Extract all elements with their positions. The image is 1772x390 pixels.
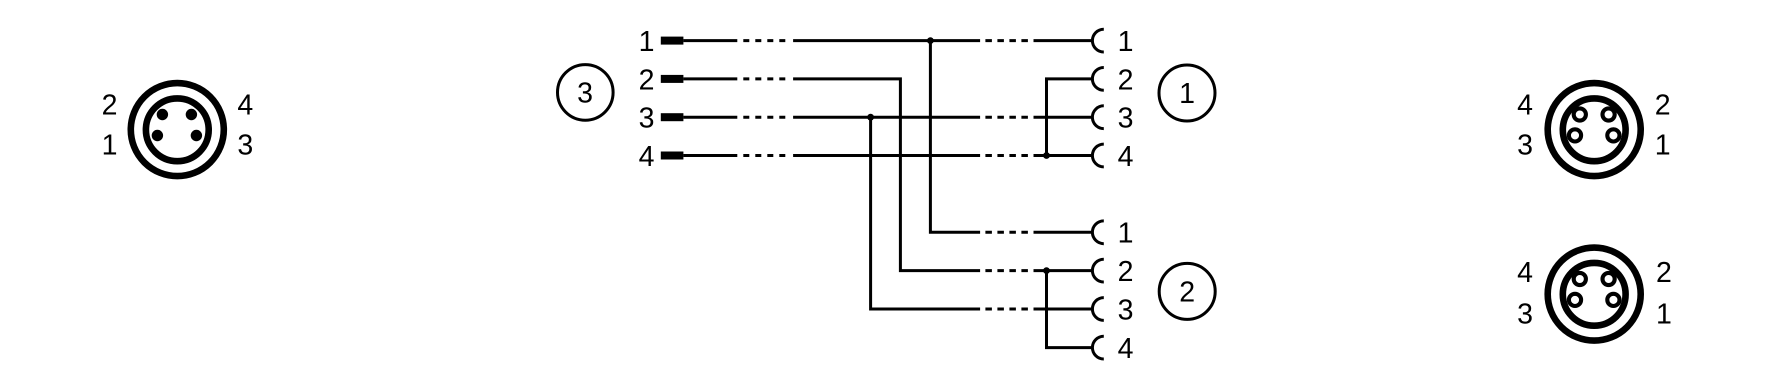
wire 2 dashed section xyxy=(743,77,785,80)
wire 1 dashed section xyxy=(743,39,785,42)
svg-text:1: 1 xyxy=(1655,130,1671,162)
svg-text:4: 4 xyxy=(1118,333,1134,365)
socket ring 1 (bottom-right) xyxy=(1607,294,1619,306)
wire 3 branch down to connector 2 pin 3 xyxy=(871,117,981,309)
pin dot 4 (top-right) xyxy=(186,109,197,120)
wire 1 branch down to connector 2 pin 1 xyxy=(930,39,980,232)
connector X2 female face (bottom right) xyxy=(1548,248,1641,341)
wire 3 branch into socket 2-3 xyxy=(1034,308,1093,311)
svg-text:2: 2 xyxy=(1118,256,1134,288)
svg-text:4: 4 xyxy=(1517,257,1533,289)
node 3 (cable end marker circle) xyxy=(558,65,614,121)
svg-text:1: 1 xyxy=(639,26,655,58)
socket ring 4 (top-left) xyxy=(1574,273,1586,285)
node 2 (connector 2 marker circle) xyxy=(1159,263,1215,319)
wire 4 dashed section xyxy=(743,154,785,157)
svg-text:3: 3 xyxy=(237,130,253,162)
svg-text:3: 3 xyxy=(1118,103,1134,135)
socket arc 2-4 xyxy=(1092,336,1103,359)
socket arc 1-2 xyxy=(1092,68,1103,91)
wire 3 into socket 1-3 xyxy=(1034,116,1093,119)
connector X1 female face (top right) xyxy=(1548,83,1641,176)
inner insert circle xyxy=(146,98,209,161)
pin dot 3 (bottom-right) xyxy=(191,130,202,141)
wire 2 into socket 2-2 xyxy=(1034,269,1093,272)
junction dot wire3/branch xyxy=(867,114,874,121)
wire 1: lug to dash xyxy=(683,39,737,42)
wire 2: lug to dash xyxy=(683,77,737,80)
inner insert circle xyxy=(1563,263,1626,326)
svg-text:2: 2 xyxy=(1655,90,1671,122)
wire 3: lug to dash xyxy=(683,116,737,119)
outer shell circle xyxy=(131,83,224,176)
svg-text:2: 2 xyxy=(102,90,118,122)
wire 4 main run to connector 1 pin 4 xyxy=(793,154,980,157)
svg-text:2: 2 xyxy=(639,64,655,96)
svg-text:4: 4 xyxy=(639,141,655,173)
socket ring 1 (bottom-right) xyxy=(1607,129,1619,141)
junction dot socket 1-4 bridge xyxy=(1043,152,1050,159)
wire 3 dashed section right xyxy=(985,116,1028,119)
svg-text:1: 1 xyxy=(1118,26,1134,58)
socket ring 3 (bottom-left) xyxy=(1569,129,1581,141)
socket arc 1-3 xyxy=(1092,106,1103,129)
junction dot wire1/branch xyxy=(927,37,934,44)
wire 1 branch into socket 2-1 xyxy=(1034,231,1093,234)
pin dot 2 (top-left) xyxy=(157,109,168,120)
wire 4: lug to dash xyxy=(683,154,737,157)
wire 3 branch dashed section xyxy=(985,308,1028,311)
junction dot socket 2-2 bridge xyxy=(1043,267,1050,274)
wire 1 branch dashed section xyxy=(985,231,1028,234)
svg-text:4: 4 xyxy=(1118,141,1134,173)
pin dot 1 (bottom-left) xyxy=(152,130,163,141)
svg-text:1: 1 xyxy=(1118,218,1134,250)
wire 2 dashed section right xyxy=(985,269,1028,272)
svg-text:1: 1 xyxy=(1656,299,1672,331)
wire 4 bridge to socket 1-2 xyxy=(1047,79,1093,156)
socket arc 1-4 xyxy=(1092,144,1103,167)
svg-text:2: 2 xyxy=(1118,64,1134,96)
svg-text:3: 3 xyxy=(1118,294,1134,326)
socket ring 3 (bottom-left) xyxy=(1569,294,1581,306)
wire 3 dashed section xyxy=(743,116,785,119)
wire 3 main run to connector 1 pin 3 xyxy=(793,116,980,119)
connector X3 male face (left) xyxy=(131,83,224,176)
svg-text:4: 4 xyxy=(237,90,253,122)
socket arc 2-3 xyxy=(1092,298,1103,321)
terminal lug pin 2 xyxy=(661,75,684,83)
wire 1 main run to connector 1 pin 1 xyxy=(793,39,980,42)
wire 1 into socket 1-1 xyxy=(1034,39,1093,42)
svg-text:4: 4 xyxy=(1517,90,1533,122)
inner insert circle xyxy=(1563,98,1626,161)
socket arc 2-1 xyxy=(1092,221,1103,244)
svg-text:3: 3 xyxy=(577,78,593,110)
svg-text:3: 3 xyxy=(639,103,655,135)
outer shell circle xyxy=(1548,248,1641,341)
svg-text:3: 3 xyxy=(1517,130,1533,162)
svg-text:2: 2 xyxy=(1179,277,1195,309)
wire 2 run and turn down to connector 2 pin 2 xyxy=(793,79,980,271)
socket ring 4 (top-left) xyxy=(1574,108,1586,120)
outer shell circle xyxy=(1548,83,1641,176)
terminal lug pin 1 xyxy=(661,37,684,45)
svg-text:1: 1 xyxy=(102,130,118,162)
wire 2 bridge to socket 2-4 xyxy=(1047,271,1093,348)
svg-text:2: 2 xyxy=(1656,257,1672,289)
wire 1 dashed section right xyxy=(985,39,1028,42)
terminal lug pin 3 xyxy=(661,113,684,121)
socket arc 2-2 xyxy=(1092,259,1103,282)
socket arc 1-1 xyxy=(1092,29,1103,52)
wire 4 dashed section right xyxy=(985,154,1028,157)
node 1 (connector 1 marker circle) xyxy=(1159,65,1215,121)
socket ring 2 (top-right) xyxy=(1603,108,1615,120)
terminal lug pin 4 xyxy=(661,152,684,160)
svg-text:3: 3 xyxy=(1517,299,1533,331)
socket ring 2 (top-right) xyxy=(1603,273,1615,285)
wire 4 into socket 1-4 xyxy=(1034,154,1093,157)
svg-text:1: 1 xyxy=(1179,78,1195,110)
